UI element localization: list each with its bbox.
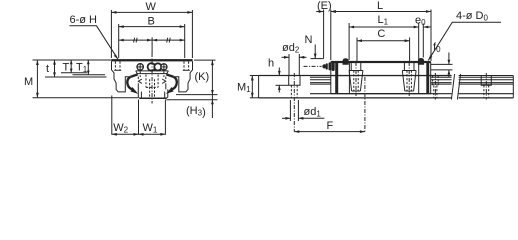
svg-text:B: B [148,16,155,28]
bolt circle right [161,64,167,70]
svg-text:N: N [305,34,313,46]
equal mark left [134,38,135,43]
f0 ref line upper [431,63,453,65]
ext L1 left [348,23,350,60]
ext rail left [138,100,140,135]
cup left centerline [355,62,357,96]
its centerline [434,73,436,100]
dim W2 text [113,122,128,135]
svg-text:h: h [268,58,274,70]
block right end face [430,62,432,94]
dim e0 text [415,15,426,28]
counterbore hole 3 [481,76,491,86]
hole3 d1 dashed [484,85,489,98]
ext W right [191,10,193,58]
rail inner lip lines [140,92,142,99]
ext L right [430,10,432,62]
dim phi-d1 text [304,106,322,119]
rail top line [259,75,452,77]
grease nipple circles cluster: bolt circle left [137,64,143,70]
bolt hole dashes below circles [140,72,164,78]
rail lower line [310,93,452,95]
rail groove lines left of block [310,76,331,78]
dim K text [195,71,210,83]
rail side: left end [258,76,260,98]
block bottom line [331,93,431,95]
block top ext line right [194,59,216,61]
ear bolt hidden lines left [115,62,120,71]
rail groove notch right [162,77,166,90]
ext L1 right [418,23,420,60]
dim W line [111,11,192,13]
hole1 d1 dashed [291,85,297,98]
dim T text [63,62,70,74]
cavity chamfer right [167,71,169,74]
nipple inner dashes [154,63,156,70]
label 6-phiH [70,14,98,26]
ext C right [409,38,411,62]
block underside line [136,70,169,72]
svg-text:(H3): (H3) [186,105,206,119]
ext W2 left [111,96,113,135]
mounting ext line right [167,99,218,101]
svg-text:6-ø H: 6-ø H [70,14,98,26]
hole1 centerline [293,73,295,132]
seal lip hook right [166,74,173,77]
dim N text [305,34,313,46]
svg-text:(K): (K) [195,71,210,83]
ear bolt hidden lines right [184,62,189,71]
ext B right [184,24,186,58]
label 4-phiD0 [456,10,489,23]
rail top under block segments [331,75,351,77]
ext C left [356,38,358,62]
hole at right of block dashed [433,76,439,98]
svg-text:(E): (E) [317,0,332,12]
dim N arrow [314,45,316,59]
block outline right half [175,61,193,92]
block top plate thick line [111,59,192,61]
cb bottom ext for h [276,84,289,86]
d1 arrows [282,117,290,119]
ext B left [118,24,120,58]
dim T line [70,60,72,73]
grease boss left [343,58,349,65]
nipple centerline [304,65,322,67]
center ext tick [151,37,153,53]
grease boss right [418,58,424,65]
rail groove notch left [138,77,142,90]
svg-text:C: C [377,28,385,40]
dim W1 text [143,122,158,135]
block bottom ext line right [176,94,218,96]
svg-text:L: L [377,0,383,12]
dim B line [119,26,185,28]
rail bolt hidden lines [146,75,158,98]
dim h text [268,58,274,70]
dim t line [54,60,56,77]
centerline rail [151,53,153,104]
dim h arrows [278,68,280,76]
dim F text [327,120,334,132]
cap joint right [418,63,420,94]
dim M1 line [251,76,253,98]
svg-text:T: T [63,62,70,74]
t reference line [45,76,107,78]
nipple second circle [154,63,161,70]
ext L left [330,10,332,61]
ext E left (nipple tip) [323,10,325,59]
svg-text:t: t [46,63,49,75]
rail top line [137,73,167,75]
BLOCK side view: top thick line [331,61,431,63]
dim H3 text [186,105,206,119]
dim K line (shared with H3) [211,60,213,100]
seal lip hook left [130,74,137,77]
dim L1 line [349,26,419,28]
dim t text [46,63,49,75]
ext d2 right [298,54,300,76]
dim T1 text [76,62,88,75]
nipple big circle [148,63,156,71]
dim C line [357,40,410,42]
dim e0 arrow [423,26,430,28]
svg-text:F: F [327,120,334,132]
rail cross-section sides [138,89,168,98]
d1 ext lines below rail [289,100,291,121]
block tap hole cup left [350,63,352,71]
block right seal dark band [426,62,429,94]
rail groove lines right of block [431,76,452,78]
ext d2 left [288,54,290,76]
block outline left half [112,61,130,92]
rail right end [512,76,514,98]
grease nipple side view [322,64,326,68]
cavity chamfer left [136,71,138,74]
block left seal dark band [335,62,338,94]
T1 reference line [73,74,106,76]
rail groove lines right of break [459,76,514,78]
ext rail right [164,100,166,135]
M1 ext bottom [250,97,259,99]
block top extension line [33,59,112,61]
M1 ext top [250,75,259,77]
ext e0 [422,24,424,58]
dim C text [377,28,385,40]
dim L line [331,11,431,13]
dim phi-d2 arrows [282,56,290,58]
T reference line [61,72,87,74]
dim W text [146,1,157,13]
mounting surface line left [33,97,139,99]
svg-text:M: M [24,76,33,88]
dim f0 arrows [448,53,450,65]
dim M line [36,60,38,98]
dim f0 text [433,42,441,55]
dim T1 line [87,60,89,75]
counterbore hole 1 [289,76,300,86]
rail break lines [451,74,454,100]
leader 6-phiH [70,26,119,60]
dim W2/W1 line [112,133,166,135]
dim L1 text [378,14,389,27]
ext W left [110,10,112,58]
svg-text:W: W [146,1,157,13]
dim H3 lower arrow [211,100,213,118]
block left seal face [330,62,332,94]
dim F line [294,131,365,133]
hole2 centerline [364,77,366,132]
dim equal-spacing line [119,39,185,41]
equal mark right [167,38,168,43]
dim B text [148,16,155,28]
f0 ref line lower [431,69,453,71]
dim L text [377,0,383,12]
cap joint left [348,63,350,94]
cup right centerline [408,62,410,96]
dim E arrows [316,11,323,13]
block tap hole cup right [403,63,405,71]
dim M text [24,76,33,88]
rail bottom line [259,97,452,99]
dim M1 text [237,82,251,95]
leader 4-phiD0 [428,22,501,60]
hole3 centerline [485,73,487,100]
dim phi-d2 text [282,42,300,55]
dim E text [317,0,332,12]
